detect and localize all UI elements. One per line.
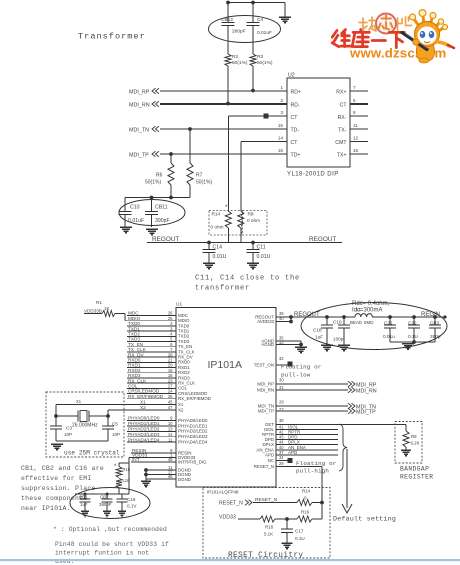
ground G1 (top right) <box>279 16 291 18</box>
wire C4 to R3 <box>252 26 254 55</box>
svg-text:IP101ALQFP48: IP101ALQFP48 <box>207 490 239 495</box>
svg-text:10: 10 <box>168 421 173 426</box>
capacitor CB3 <box>433 315 437 319</box>
svg-text:MDI_TN: MDI_TN <box>129 128 149 134</box>
svg-text:10P: 10P <box>64 432 72 437</box>
capacitor C14 <box>208 243 210 250</box>
mascot crown balls <box>410 10 448 30</box>
svg-text:transformer: transformer <box>195 285 250 293</box>
watermark badge xin <box>376 14 396 34</box>
junction top-left <box>226 1 230 5</box>
dashed box R8 <box>243 211 268 236</box>
ground under C19 <box>338 344 350 346</box>
svg-text:2: 2 <box>280 98 283 103</box>
junction rail/R6 <box>169 196 173 200</box>
svg-text:X1: X1 <box>76 399 82 404</box>
junction R2/RD- <box>226 102 230 106</box>
svg-text:INTR/FIB_DIG: INTR/FIB_DIG <box>178 459 207 464</box>
svg-text:PHYAD0/LED0: PHYAD0/LED0 <box>178 418 208 423</box>
svg-text:Transformer: Transformer <box>78 32 146 42</box>
net COL pin wire <box>127 387 176 389</box>
ground DGND <box>141 480 151 482</box>
capacitor C22 <box>412 315 416 319</box>
resistor R7 <box>189 129 191 163</box>
svg-text:0 ohm: 0 ohm <box>247 218 260 223</box>
svg-text:Pin48 could be short VDD33 if: Pin48 could be short VDD33 if <box>55 541 169 548</box>
svg-text:50(1%): 50(1%) <box>232 60 248 66</box>
svg-text:BEAD SMD: BEAD SMD <box>350 320 374 325</box>
junction MDI_TN/R7 <box>188 127 192 131</box>
junction crystal right <box>106 414 110 418</box>
svg-text:1K: 1K <box>104 306 109 311</box>
watermark char wei <box>332 30 350 47</box>
mascot head <box>415 22 440 47</box>
capacitor CB11 <box>151 198 153 212</box>
svg-text:R14: R14 <box>302 489 311 494</box>
svg-text:PHYAD1/LED1: PHYAD1/LED1 <box>128 421 160 426</box>
DGND pin wires <box>146 469 176 471</box>
svg-text:26: 26 <box>168 394 173 399</box>
svg-text:C3: C3 <box>66 426 72 431</box>
ellipse C10/CB11 <box>119 200 185 226</box>
svg-text:RX_ER/FIBMOD: RX_ER/FIBMOD <box>178 396 211 401</box>
resistor R6 <box>170 154 172 163</box>
net RX_DV pin wire <box>127 356 176 358</box>
wire REGOUT/AVDD33 tie <box>290 317 292 322</box>
capacitor CB12 <box>222 22 235 24</box>
net RXD1 pin wire <box>127 367 176 369</box>
wire RESET_N <box>276 466 322 468</box>
brace strap group <box>339 424 347 471</box>
svg-text:50(1%): 50(1%) <box>196 180 212 186</box>
svg-text:APD: APD <box>288 450 298 455</box>
net MDI_TN out <box>276 405 348 407</box>
svg-text:suppression. Place: suppression. Place <box>21 485 96 492</box>
net DPLX strap wire <box>276 444 338 446</box>
svg-text:1uF: 1uF <box>315 335 323 340</box>
svg-text:50(1%): 50(1%) <box>257 60 273 66</box>
svg-text:29: 29 <box>279 461 284 466</box>
svg-text:REGISTER: REGISTER <box>400 474 433 481</box>
svg-text:BANDGAP: BANDGAP <box>400 466 429 473</box>
svg-text:PHYAD3/LED3: PHYAD3/LED3 <box>128 432 160 437</box>
net RPTR strap wire <box>276 434 338 436</box>
svg-text:28: 28 <box>279 400 284 405</box>
svg-text:390pF: 390pF <box>155 218 170 224</box>
svg-text:10P: 10P <box>112 432 120 437</box>
wire R2 to node pin2 <box>227 66 229 104</box>
net MDIO pin wire <box>127 320 176 322</box>
junction square on CT pin3 wire <box>264 114 269 119</box>
svg-text:11: 11 <box>353 123 358 128</box>
dashed box crystal <box>46 392 124 457</box>
svg-text:REGOUT: REGOUT <box>152 236 179 243</box>
svg-text:use 25M crystal: use 25M crystal <box>64 450 120 457</box>
wire R3 to node pin1 <box>252 66 254 91</box>
junction rail/gnd <box>412 340 416 344</box>
crystal Y1 26MHz <box>56 415 78 417</box>
resistor R2 <box>225 54 231 66</box>
mascot eyes <box>420 31 426 38</box>
watermark char yi <box>372 39 385 42</box>
wire R15 top tie <box>119 462 129 464</box>
svg-text:0.1U: 0.1U <box>295 536 305 541</box>
svg-text:MDI_RN: MDI_RN <box>257 388 274 393</box>
resistor R15 <box>118 463 120 467</box>
svg-text:0.01uF: 0.01uF <box>257 30 272 36</box>
svg-text:R8: R8 <box>411 434 417 439</box>
wire crystal bottom rail <box>56 440 108 442</box>
net CRS/LEDMOD pin wire <box>127 393 176 395</box>
capacitor C5 right <box>107 416 109 426</box>
ground under C11 <box>247 262 259 264</box>
svg-text:0 ohm: 0 ohm <box>211 225 224 230</box>
svg-text:C11: C11 <box>257 245 266 251</box>
wire crystal top X1 <box>55 405 57 417</box>
junction crystal left <box>54 414 58 418</box>
resistor R16 <box>297 516 312 522</box>
svg-text:TD+: TD+ <box>291 153 301 159</box>
resistor R8 bandgap 6.2K <box>403 431 409 447</box>
svg-text:MDI_TP: MDI_TP <box>129 153 149 159</box>
svg-text:7: 7 <box>353 85 356 90</box>
svg-text:VDD33B: VDD33B <box>84 308 102 313</box>
svg-text:PHYAD2/LED2: PHYAD2/LED2 <box>128 427 160 432</box>
svg-text:C4: C4 <box>257 17 263 23</box>
svg-text:31: 31 <box>279 385 284 390</box>
net TXD2 pin wire <box>127 335 176 337</box>
svg-text:X1: X1 <box>140 400 146 405</box>
wire R6/R7 bottom rail <box>125 197 190 199</box>
net MDC pin wire <box>127 315 176 317</box>
net MDI_RN out <box>276 389 348 391</box>
svg-text:DGND: DGND <box>178 477 191 482</box>
svg-text:TD-: TD- <box>291 128 300 134</box>
svg-text:38: 38 <box>279 418 284 423</box>
watermark mascot <box>402 10 454 63</box>
svg-text:6.2K: 6.2K <box>411 441 420 446</box>
svg-text:MDI_TP: MDI_TP <box>356 410 376 416</box>
net RESIN pin wire <box>131 452 176 454</box>
svg-text:0.01uF: 0.01uF <box>128 218 144 224</box>
svg-text:0: 0 <box>304 496 307 501</box>
mascot right arm <box>438 42 449 46</box>
svg-text:X2: X2 <box>140 405 146 410</box>
svg-text:16: 16 <box>278 148 284 153</box>
svg-text:these components: these components <box>21 495 87 502</box>
svg-text:100p: 100p <box>333 337 344 342</box>
svg-text:11: 11 <box>168 437 173 442</box>
mascot left hand on stick <box>413 39 419 45</box>
wire REGOUT pin <box>276 316 291 318</box>
svg-text:5: 5 <box>353 98 356 103</box>
svg-text:PHYAD2/LED2: PHYAD2/LED2 <box>178 429 208 434</box>
svg-text:R7: R7 <box>196 173 203 179</box>
svg-text:45: 45 <box>168 400 173 405</box>
svg-text:CT: CT <box>291 115 299 121</box>
wire CT pin3 to R14 column <box>228 115 287 117</box>
svg-text:RX+: RX+ <box>336 90 346 96</box>
svg-text:Floating or: Floating or <box>281 364 321 371</box>
svg-text:DPLX: DPLX <box>288 440 300 445</box>
svg-text:MDI_RP: MDI_RP <box>257 382 274 387</box>
svg-text:REGOUT: REGOUT <box>309 236 336 243</box>
svg-text:interrupt funtion is not: interrupt funtion is not <box>55 550 149 557</box>
svg-text:X2: X2 <box>178 407 184 412</box>
svg-text:47: 47 <box>168 405 173 410</box>
svg-text:CB12: CB12 <box>221 17 233 23</box>
svg-text:MDI_TP: MDI_TP <box>258 409 274 414</box>
svg-text:C14: C14 <box>213 245 223 251</box>
svg-text:CMT: CMT <box>335 140 347 146</box>
dashed box bandgap <box>395 422 422 464</box>
svg-text:Rdc≈ 0.4ohm,: Rdc≈ 0.4ohm, <box>352 301 390 307</box>
ground right caps <box>402 343 414 345</box>
svg-text:CB3: CB3 <box>430 321 440 326</box>
svg-text:YL18-2001D DIP: YL18-2001D DIP <box>287 172 339 178</box>
wire CB12 to R2 <box>227 26 229 55</box>
wire top rail to ground <box>228 2 285 4</box>
EMI caps ellipse <box>70 488 150 519</box>
svg-text:RX_ER/FIBMOD: RX_ER/FIBMOD <box>128 394 164 399</box>
capacitor C10 <box>124 198 126 212</box>
ground crystal <box>51 443 63 445</box>
wire REGOUT rail <box>147 242 342 244</box>
svg-text:TX-: TX- <box>338 128 347 134</box>
wire EMI caps rail <box>75 493 129 495</box>
capacitor C3 left <box>55 416 57 426</box>
svg-text:0.01U: 0.01U <box>257 254 271 260</box>
junction MDI_TP/R6 <box>169 152 173 156</box>
svg-text:L16: L16 <box>123 478 131 483</box>
ground under CB11 <box>146 228 158 230</box>
resistor R3 <box>250 54 256 66</box>
mascot body <box>416 42 434 61</box>
svg-text:RD+: RD+ <box>291 90 302 96</box>
svg-text:Default setting: Default setting <box>333 516 396 523</box>
ground CB1 <box>81 510 89 512</box>
svg-text:34: 34 <box>279 455 284 460</box>
svg-text:RESET_N: RESET_N <box>219 501 243 507</box>
svg-text:U1: U1 <box>176 302 182 308</box>
net AN_ENA strap wire <box>276 449 338 451</box>
svg-text:32: 32 <box>279 356 284 361</box>
wire L16 to caps <box>118 488 120 495</box>
junction R14/vert <box>320 501 324 505</box>
svg-text:NC: NC <box>268 458 274 463</box>
svg-text:R2: R2 <box>232 54 238 60</box>
svg-text:C17: C17 <box>295 529 304 534</box>
capacitor C21 <box>388 315 392 319</box>
svg-text:R6: R6 <box>156 173 163 179</box>
svg-text:0.1V: 0.1V <box>127 504 137 509</box>
svg-text:0.1U: 0.1U <box>408 334 419 339</box>
svg-text:40: 40 <box>279 316 284 321</box>
wire VDD33 branch <box>129 457 131 459</box>
svg-text:33: 33 <box>279 340 284 345</box>
svg-text:AGND: AGND <box>261 342 274 347</box>
junction top-right <box>251 1 255 5</box>
net DPD strap wire <box>276 439 338 441</box>
resistor R8 0 ohm <box>238 211 244 228</box>
svg-text:14: 14 <box>168 432 173 437</box>
marker TEST_ON floating <box>288 362 293 367</box>
net TXD3 pin wire <box>127 341 176 343</box>
svg-text:26.000MHz: 26.000MHz <box>72 423 98 429</box>
ground under C14 <box>203 262 215 264</box>
net TX_CLK pin wire <box>127 351 176 353</box>
svg-text:13: 13 <box>168 427 173 432</box>
svg-text:C11, C14 close to the: C11, C14 close to the <box>195 275 300 283</box>
svg-text:R16: R16 <box>301 510 310 515</box>
ground under C18 <box>321 344 333 346</box>
wire AGND pins <box>276 340 301 342</box>
wire cap bottom rail <box>390 341 435 343</box>
svg-text:CT: CT <box>340 103 348 109</box>
capacitor C11 <box>252 243 254 250</box>
svg-text:C16: C16 <box>127 497 136 502</box>
capacitor C18 <box>325 315 329 319</box>
resistor R14 reset 0ohm <box>297 500 312 506</box>
svg-text:pull-low: pull-low <box>281 372 311 379</box>
svg-text:48: 48 <box>168 457 173 462</box>
capacitor C19 <box>342 315 346 319</box>
bottom blue divider <box>0 559 460 561</box>
svg-text:MDI_RN: MDI_RN <box>129 103 150 109</box>
wire column B (x=253 down to C4) <box>252 3 254 23</box>
svg-text:0.01U: 0.01U <box>213 254 227 260</box>
net RXD2 pin wire <box>127 372 176 374</box>
resistor R18 5.1K <box>260 516 275 522</box>
svg-text:PHYAD4/LED4: PHYAD4/LED4 <box>178 440 208 445</box>
svg-text:30: 30 <box>279 378 284 383</box>
svg-text:RESET Circuitry: RESET Circuitry <box>228 552 303 560</box>
wire CT pin14 to R8 column <box>241 141 287 143</box>
svg-text:RESET_N: RESET_N <box>254 464 274 469</box>
inductor L16 <box>116 479 122 488</box>
resistor R14 0 ohm <box>225 211 231 228</box>
ground bandgap <box>401 449 411 451</box>
net PHYAD4/LED4 pin wire <box>127 441 176 443</box>
watermark char ku <box>352 30 369 47</box>
svg-text:C22: C22 <box>408 321 417 326</box>
watermark text weiku yixia <box>332 30 404 48</box>
svg-text:27: 27 <box>279 407 284 412</box>
svg-text:U2: U2 <box>288 73 295 79</box>
net X1 pin wire <box>56 404 176 406</box>
net TXD1 pin wire <box>127 330 176 332</box>
svg-text:AVDD33: AVDD33 <box>257 319 274 324</box>
junction C11 <box>251 241 255 245</box>
capacitor C17 <box>286 519 288 529</box>
net VDD33 pin wire <box>131 457 176 459</box>
svg-text:INT: INT <box>132 457 140 462</box>
svg-text:14: 14 <box>278 136 284 141</box>
mascot crown stalks <box>414 16 443 33</box>
net PHYAD2/LED2 pin wire <box>127 430 176 432</box>
svg-text:46: 46 <box>168 474 173 479</box>
net RX_ER/FIBMOD pin wire <box>127 398 176 400</box>
svg-text:R8: R8 <box>248 212 254 217</box>
svg-text:TEST_ON: TEST_ON <box>254 363 274 368</box>
svg-text:RX-: RX- <box>338 115 347 121</box>
svg-text:R14: R14 <box>212 212 221 217</box>
svg-text:near IP101A.: near IP101A. <box>21 505 71 512</box>
svg-text:pull-high: pull-high <box>296 468 329 475</box>
svg-text:R18: R18 <box>265 525 274 530</box>
svg-text:44: 44 <box>279 440 284 445</box>
svg-text:50(1%): 50(1%) <box>145 180 161 186</box>
net RXD0 pin wire <box>127 361 176 363</box>
svg-text:MDI_RN: MDI_RN <box>356 389 377 395</box>
U2 right pin wires <box>350 90 368 92</box>
inductor L1 BEAD SMD <box>355 314 372 317</box>
wire reset vertical <box>321 503 323 520</box>
watermark dzsc logo <box>332 10 454 63</box>
svg-text:3: 3 <box>280 110 283 115</box>
svg-text:C19: C19 <box>333 320 342 325</box>
marker NC floating <box>288 458 293 463</box>
svg-text:C18: C18 <box>313 328 322 333</box>
svg-text:PHYAD4/LED4: PHYAD4/LED4 <box>128 437 160 442</box>
svg-text:CB11: CB11 <box>155 205 168 211</box>
svg-text:C5: C5 <box>112 422 118 427</box>
mascot pen stick <box>402 33 427 50</box>
net INT pin wire <box>131 461 176 463</box>
net TXD0 pin wire <box>127 325 176 327</box>
wire crystal right to X2 <box>107 410 109 416</box>
net APD strap wire <box>276 454 338 456</box>
capacitor CB2 <box>106 494 108 499</box>
svg-text:CT: CT <box>291 140 299 146</box>
svg-text:*: * <box>225 204 228 211</box>
watermark char pian <box>398 17 412 31</box>
svg-text:1uF: 1uF <box>80 502 88 507</box>
svg-text:X1: X1 <box>178 402 184 407</box>
svg-text:DPLX: DPLX <box>263 442 275 447</box>
wire BGT to bandgap <box>276 424 406 426</box>
net PHYAD1/LED1 pin wire <box>127 425 176 427</box>
mascot foot <box>419 58 429 63</box>
svg-text:260pF: 260pF <box>232 29 246 35</box>
svg-text:PHYAD3/LED3: PHYAD3/LED3 <box>178 434 208 439</box>
svg-text:Idc=300mA: Idc=300mA <box>352 308 383 314</box>
svg-text:TX+: TX+ <box>337 153 347 159</box>
svg-text:R15: R15 <box>123 467 131 472</box>
watermark char xia <box>389 32 404 47</box>
watermark char zhao <box>359 17 376 31</box>
net TX_EN pin wire <box>127 346 176 348</box>
net MDI_RP out <box>276 383 348 385</box>
svg-text:PHYAD0/LED0: PHYAD0/LED0 <box>128 416 160 421</box>
wire column A (x=228 down to CB12) <box>227 3 229 23</box>
capacitor C16 <box>121 494 123 499</box>
svg-text:effective for EMI: effective for EMI <box>21 475 92 482</box>
net PHYAD3/LED3 pin wire <box>127 436 176 438</box>
wire AVDD33 pin <box>276 321 291 323</box>
svg-text:MDI_RP: MDI_RP <box>129 90 150 96</box>
net PHYAD0/LED0 pin wire <box>127 420 176 422</box>
capacitor CB1 <box>84 494 86 499</box>
svg-text:* : Optional ,but recommended: * : Optional ,but recommended <box>53 526 167 533</box>
net X2 pin wire <box>108 409 176 411</box>
ground C16 <box>118 510 126 512</box>
regout distribution ellipse <box>301 303 447 350</box>
svg-text:C10: C10 <box>130 205 140 211</box>
svg-text:C21: C21 <box>384 321 393 326</box>
svg-text:12: 12 <box>353 136 359 141</box>
svg-text:1: 1 <box>280 85 283 90</box>
